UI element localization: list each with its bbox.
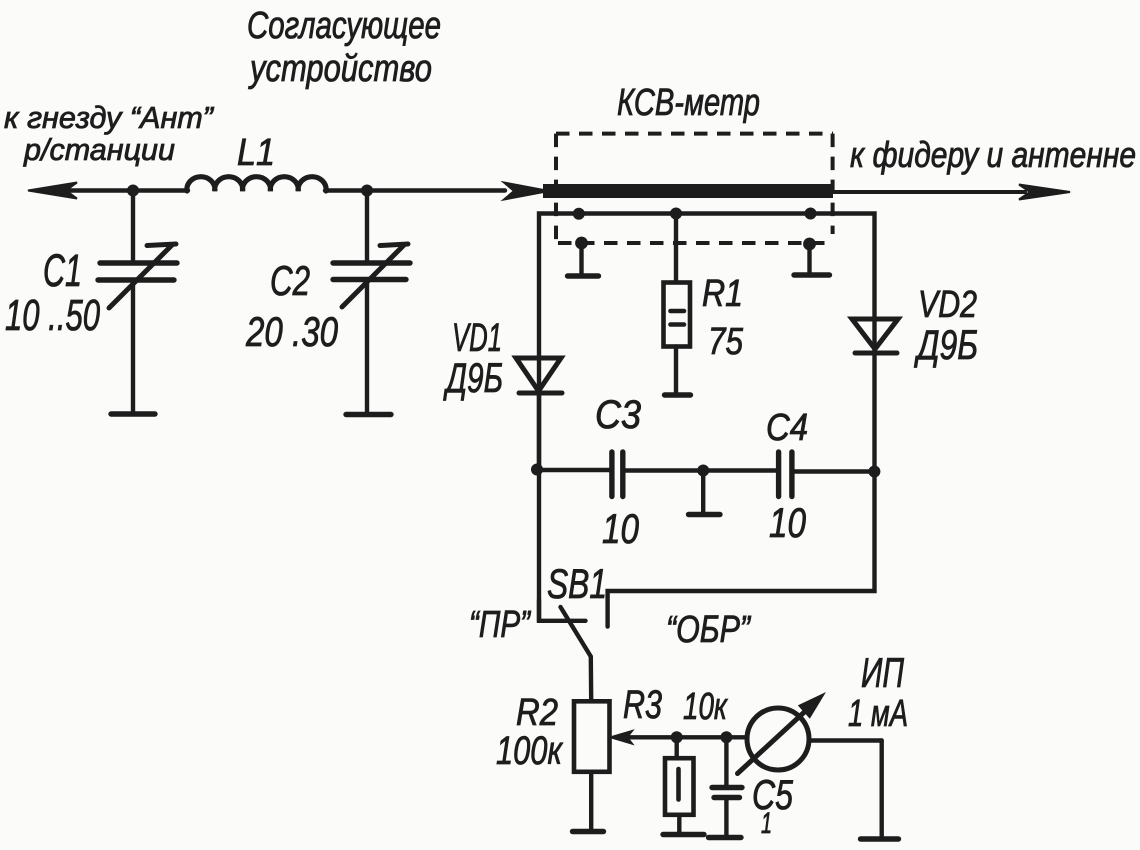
label VD2 Д9Б [914, 284, 978, 368]
svg-text:C5: C5 [752, 771, 793, 818]
svg-text:10: 10 [602, 505, 640, 552]
svg-text:устройство: устройство [248, 48, 432, 90]
svg-text:КСВ-метр: КСВ-метр [617, 82, 760, 124]
arrowhead to radio station (left) [28, 183, 77, 199]
svg-text:C2: C2 [270, 257, 310, 304]
label C2 20..30 [245, 257, 338, 355]
capacitor C4 [703, 452, 874, 497]
node junction pickup line at R1 [670, 208, 682, 220]
wire main horizontal middle segment [325, 188, 505, 192]
arrowhead to feeder and antenna [1019, 185, 1070, 200]
arrowhead into SWR meter line [504, 183, 549, 200]
svg-text:10 ..50: 10 ..50 [5, 291, 100, 340]
resistor R1 [664, 214, 691, 396]
node junction pickup line right [805, 208, 817, 220]
label ИП 1 мА [848, 649, 908, 735]
title "Согласующее устройство" [247, 5, 441, 90]
label R1 75 [702, 273, 744, 363]
svg-text:к фидеру и антенне: к фидеру и антенне [850, 134, 1136, 175]
node junction at C2 tap [361, 185, 373, 197]
label R3 10к [623, 683, 728, 728]
svg-text:к гнезду “Ант”: к гнезду “Ант” [4, 100, 215, 135]
svg-text:100к: 100к [496, 729, 564, 773]
ground terminal mid row [689, 471, 721, 515]
potentiometer R2 [573, 701, 748, 831]
label C3 10 [595, 393, 641, 552]
label C1 10..50 [5, 245, 100, 340]
capacitor C2 (variable) [333, 191, 410, 415]
svg-text:“ОБР”: “ОБР” [666, 609, 752, 651]
svg-text:R2: R2 [516, 692, 558, 734]
node at VD1 bottom [531, 464, 543, 476]
svg-text:R3: R3 [623, 683, 662, 727]
wire C3-C4 horizontal row [538, 468, 611, 472]
node at VD2 bottom [868, 466, 880, 478]
node junction at C1 tap [127, 185, 139, 197]
wiper wire with arrow [628, 735, 747, 739]
node at C5 tap [720, 731, 732, 743]
svg-text:1 мА: 1 мА [848, 693, 908, 735]
capacitor C3 [612, 452, 703, 497]
ground terminal right (inside SWR box) [794, 244, 830, 275]
wire to feeder (right) [833, 190, 1025, 194]
label C5 1 [752, 771, 793, 840]
svg-text:L1: L1 [237, 132, 275, 174]
wire pickup line below coupled bar [539, 214, 875, 621]
svg-text:C3: C3 [595, 393, 641, 437]
node between C3 and C4 [697, 465, 709, 477]
diode VD1 [516, 358, 562, 393]
svg-text:20 .30: 20 .30 [245, 308, 338, 355]
label C4 10 [766, 407, 808, 546]
capacitor C1 (variable) [98, 191, 177, 415]
svg-text:75: 75 [708, 321, 744, 363]
svg-text:VD2: VD2 [918, 284, 977, 326]
label "к гнезду Ант р/станции" [4, 100, 215, 167]
label SB1 [469, 560, 752, 651]
dashed box КСВ-метр [556, 134, 833, 244]
svg-text:Д9Б: Д9Б [914, 321, 978, 368]
svg-text:ИП: ИП [861, 649, 904, 696]
label R2 100к [496, 692, 564, 773]
coupled line thick bar [543, 184, 833, 198]
label VD1 Д9Б [443, 316, 503, 401]
svg-text:C4: C4 [766, 407, 808, 449]
svg-text:R1: R1 [702, 273, 743, 315]
svg-text:10к: 10к [683, 686, 728, 728]
svg-text:SB1: SB1 [547, 560, 607, 607]
wire VD1 cathode down to switch [537, 393, 541, 469]
ground terminal left (inside SWR box) [568, 243, 599, 276]
diode VD2 [852, 319, 898, 353]
node at R3 tap [671, 731, 683, 743]
svg-text:р/станции: р/станции [23, 132, 175, 167]
node junction on dashed edge left [575, 237, 588, 250]
capacitor C5 [709, 737, 743, 837]
svg-text:Д9Б: Д9Б [443, 354, 503, 401]
switch SB1 [539, 600, 591, 701]
meter ИП (moving coil indicator) [738, 692, 899, 839]
wire main horizontal left segment [40, 188, 188, 192]
svg-text:C1: C1 [43, 245, 82, 296]
svg-text:10: 10 [769, 499, 807, 546]
svg-text:Согласующее: Согласующее [247, 5, 441, 47]
movable arm [561, 607, 592, 701]
PR fixed contact [539, 600, 586, 621]
wire VD2 cathode down and across to OBR contact [608, 353, 875, 627]
svg-text:1: 1 [761, 807, 772, 840]
node junction on dashed edge right [803, 238, 816, 251]
node junction pickup line left [573, 208, 585, 220]
inductor L1 [187, 177, 326, 191]
svg-text:“ПР”: “ПР” [469, 604, 532, 646]
resistor R3 [663, 737, 704, 834]
